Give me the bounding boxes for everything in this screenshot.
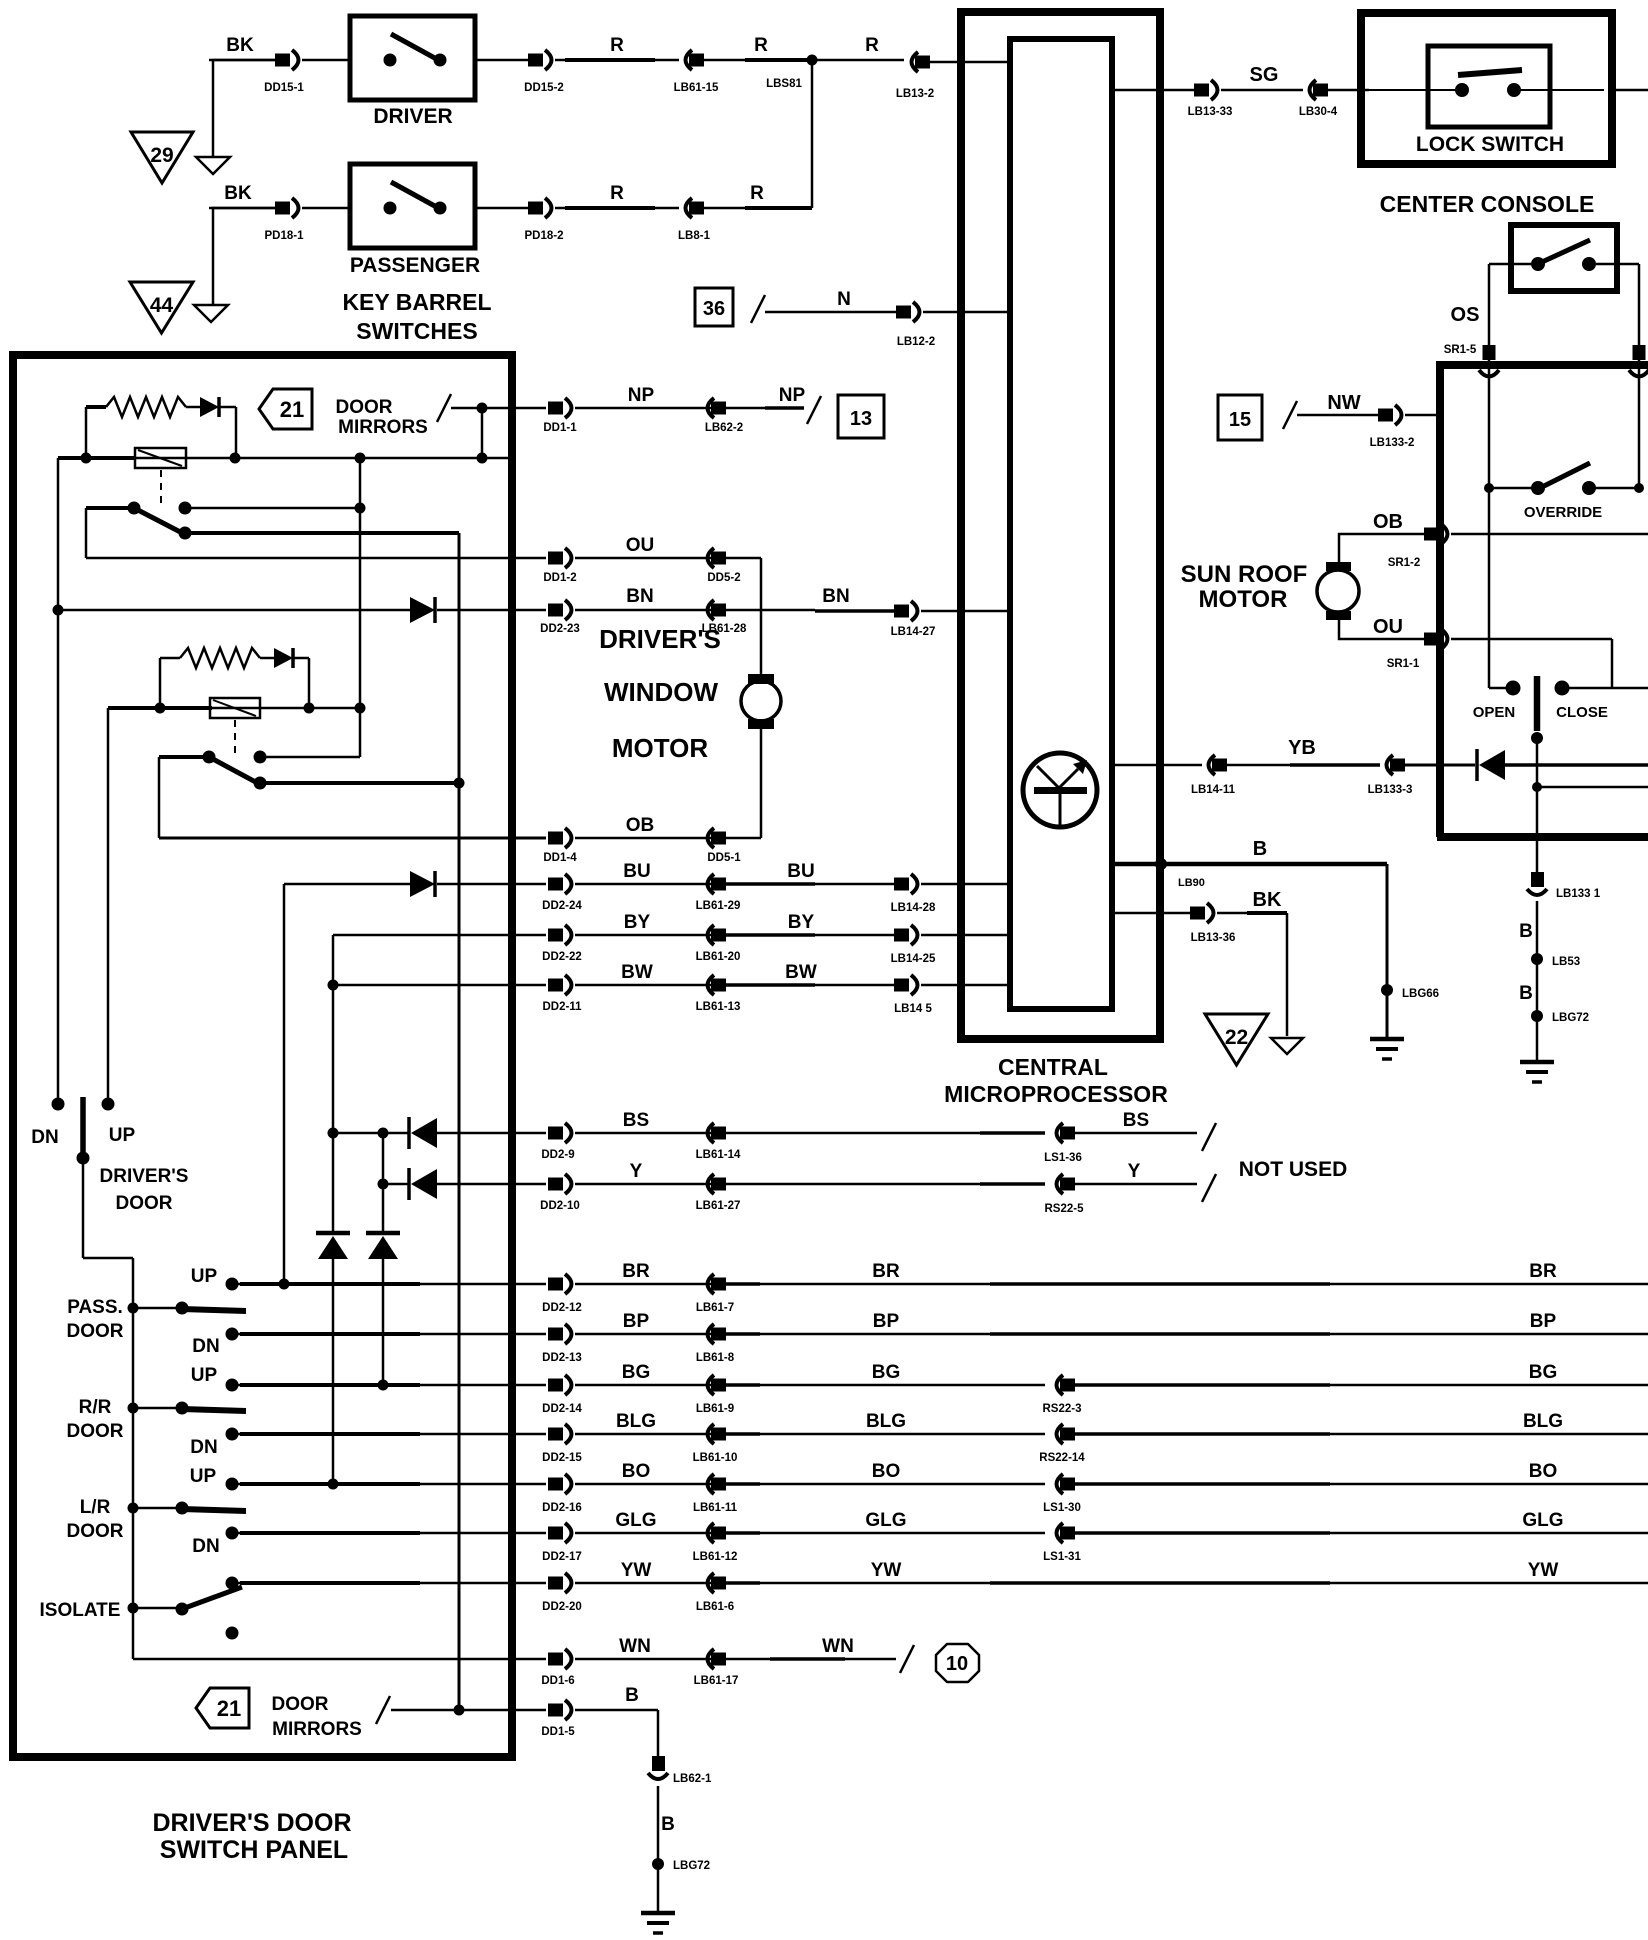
svg-text:LB61-14: LB61-14 [696,1149,741,1161]
svg-text:NP: NP [779,385,806,406]
svg-text:LB61-28: LB61-28 [702,623,747,635]
svg-text:LS1-36: LS1-36 [1044,1152,1082,1164]
svg-text:LB14-11: LB14-11 [1191,784,1236,796]
svg-text:SWITCHES: SWITCHES [356,318,477,344]
svg-text:OB: OB [1373,511,1403,533]
svg-text:PASS.: PASS. [67,1297,123,1318]
svg-text:LBG72: LBG72 [1552,1012,1589,1024]
svg-text:N: N [837,289,851,310]
svg-text:BU: BU [623,861,650,882]
svg-text:LB61-8: LB61-8 [696,1352,735,1364]
svg-text:DD2-15: DD2-15 [542,1452,582,1464]
svg-text:YW: YW [621,1560,652,1581]
svg-text:LB13-33: LB13-33 [1188,106,1233,118]
svg-text:BG: BG [1529,1362,1558,1383]
svg-text:OPEN: OPEN [1473,704,1516,721]
svg-text:DD1-6: DD1-6 [541,1675,574,1687]
svg-text:DD2-17: DD2-17 [542,1551,582,1563]
svg-text:LB61-17: LB61-17 [694,1675,739,1687]
svg-text:LB61-7: LB61-7 [696,1302,734,1314]
svg-text:DD2-13: DD2-13 [542,1352,582,1364]
svg-text:B: B [661,1814,675,1835]
svg-text:BK: BK [224,183,252,204]
svg-text:DN: DN [192,1336,219,1357]
svg-text:BS: BS [1123,1110,1149,1131]
svg-text:MIRRORS: MIRRORS [272,1719,362,1740]
svg-text:LB61-9: LB61-9 [696,1403,734,1415]
svg-text:LB53: LB53 [1552,956,1580,968]
svg-text:DD2-22: DD2-22 [542,951,582,963]
svg-text:RS22-3: RS22-3 [1043,1403,1082,1415]
svg-text:LB90: LB90 [1178,877,1205,889]
svg-text:WINDOW: WINDOW [604,677,719,707]
svg-text:LB13-2: LB13-2 [896,88,934,100]
svg-text:DD15-2: DD15-2 [524,82,564,94]
svg-text:WN: WN [619,1636,651,1657]
svg-text:LB61-10: LB61-10 [693,1452,738,1464]
svg-text:22: 22 [1225,1026,1248,1049]
svg-text:DRIVER'S DOOR: DRIVER'S DOOR [152,1809,351,1837]
svg-text:LS1-31: LS1-31 [1043,1551,1081,1563]
svg-text:LB12-2: LB12-2 [897,336,935,348]
svg-text:44: 44 [150,294,174,317]
svg-text:MOTOR: MOTOR [612,733,709,763]
svg-text:21: 21 [280,397,304,422]
svg-text:MIRRORS: MIRRORS [338,417,428,438]
svg-text:LBG72: LBG72 [673,1860,710,1872]
svg-text:21: 21 [217,1696,241,1721]
svg-text:NP: NP [628,385,655,406]
svg-text:DD1-4: DD1-4 [543,852,577,864]
svg-text:LB13-36: LB13-36 [1191,932,1236,944]
svg-text:SG: SG [1250,64,1279,86]
svg-text:BG: BG [622,1362,651,1383]
svg-text:DOOR: DOOR [336,397,393,418]
svg-text:KEY BARREL: KEY BARREL [342,289,491,315]
svg-text:LB62-2: LB62-2 [705,422,743,434]
svg-text:BK: BK [226,35,254,56]
svg-text:OB: OB [626,815,655,836]
svg-text:SUN ROOF: SUN ROOF [1181,561,1308,588]
svg-text:B: B [1519,983,1533,1004]
svg-text:LB133-3: LB133-3 [1368,784,1413,796]
svg-text:DOOR: DOOR [116,1193,173,1214]
svg-text:BLG: BLG [1523,1411,1563,1432]
svg-text:LB61-11: LB61-11 [693,1502,738,1514]
svg-text:DD2-16: DD2-16 [542,1502,582,1514]
svg-text:B: B [625,1685,639,1706]
svg-text:YW: YW [871,1560,902,1581]
svg-text:RS22-5: RS22-5 [1045,1203,1085,1215]
svg-text:Y: Y [630,1161,643,1182]
svg-text:BW: BW [621,962,653,983]
svg-text:SR1-2: SR1-2 [1388,557,1421,569]
svg-text:BO: BO [1529,1461,1558,1482]
svg-text:LBS81: LBS81 [766,78,802,90]
svg-text:DN: DN [192,1536,219,1557]
svg-text:DOOR: DOOR [272,1694,329,1715]
svg-text:LB61-13: LB61-13 [696,1001,741,1013]
svg-text:36: 36 [703,298,725,320]
svg-text:R: R [750,183,764,204]
svg-text:PD18-1: PD18-1 [265,230,305,242]
svg-text:DD1-1: DD1-1 [543,422,577,434]
svg-text:BG: BG [872,1362,901,1383]
svg-text:BR: BR [622,1261,650,1282]
svg-text:DOOR: DOOR [67,1421,124,1442]
svg-text:15: 15 [1229,409,1251,431]
svg-text:LB8-1: LB8-1 [678,230,711,242]
svg-text:LB61-29: LB61-29 [696,900,741,912]
svg-text:DOOR: DOOR [67,1321,124,1342]
svg-text:OS: OS [1451,304,1480,326]
svg-text:DD1-5: DD1-5 [541,1726,575,1738]
svg-text:DD2-9: DD2-9 [541,1149,574,1161]
svg-text:DD2-20: DD2-20 [542,1601,582,1613]
svg-text:PD18-2: PD18-2 [525,230,564,242]
svg-text:LOCK SWITCH: LOCK SWITCH [1416,133,1564,156]
svg-text:B: B [1519,921,1533,942]
svg-text:Y: Y [1128,1161,1141,1182]
svg-text:R: R [610,183,624,204]
svg-text:CENTER CONSOLE: CENTER CONSOLE [1380,191,1595,217]
svg-text:YB: YB [1288,737,1316,759]
svg-text:UP: UP [109,1125,136,1146]
svg-text:BP: BP [873,1311,900,1332]
svg-text:GLG: GLG [615,1510,656,1531]
svg-text:SWITCH PANEL: SWITCH PANEL [160,1836,348,1864]
svg-text:LB14-28: LB14-28 [891,902,936,914]
svg-text:BP: BP [623,1311,650,1332]
svg-text:LB14-25: LB14-25 [891,953,936,965]
svg-text:R: R [865,35,879,56]
svg-text:BLG: BLG [866,1411,906,1432]
svg-text:DD2-14: DD2-14 [542,1403,582,1415]
svg-text:BY: BY [788,912,815,933]
svg-text:DD5-2: DD5-2 [707,572,740,584]
svg-text:BN: BN [822,586,849,607]
svg-text:OU: OU [1373,616,1403,638]
svg-text:SR1-1: SR1-1 [1387,658,1420,670]
svg-text:LB62-1: LB62-1 [673,1773,712,1785]
svg-text:DD1-2: DD1-2 [543,572,576,584]
svg-text:SR1-5: SR1-5 [1444,344,1477,356]
svg-text:BK: BK [1253,889,1282,911]
svg-text:GLG: GLG [1522,1510,1563,1531]
svg-text:LB61-20: LB61-20 [696,951,741,963]
svg-text:DN: DN [190,1437,217,1458]
svg-text:UP: UP [191,1266,218,1287]
svg-text:LS1-30: LS1-30 [1043,1502,1081,1514]
svg-text:10: 10 [946,1653,968,1675]
svg-text:B: B [1253,838,1267,860]
svg-text:OU: OU [626,535,655,556]
svg-text:BO: BO [622,1461,651,1482]
svg-text:LB61-15: LB61-15 [674,82,719,94]
svg-text:DD2-10: DD2-10 [540,1200,580,1212]
svg-text:LB61-27: LB61-27 [696,1200,741,1212]
svg-text:CLOSE: CLOSE [1556,704,1608,721]
svg-text:GLG: GLG [865,1510,906,1531]
svg-text:UP: UP [190,1466,217,1487]
svg-text:RS22-14: RS22-14 [1039,1452,1085,1464]
svg-text:LB14 5: LB14 5 [894,1003,932,1015]
svg-text:BU: BU [787,861,814,882]
svg-text:MICROPROCESSOR: MICROPROCESSOR [944,1081,1168,1107]
svg-text:LB14-27: LB14-27 [891,626,936,638]
svg-text:BR: BR [1529,1261,1557,1282]
svg-text:BY: BY [624,912,651,933]
svg-text:R: R [754,35,768,56]
svg-text:LB133 1: LB133 1 [1556,888,1601,900]
svg-text:LBG66: LBG66 [1402,988,1439,1000]
svg-text:WN: WN [822,1636,854,1657]
svg-text:LB30-4: LB30-4 [1299,106,1338,118]
svg-text:CENTRAL: CENTRAL [998,1054,1108,1080]
svg-text:BO: BO [872,1461,901,1482]
svg-text:DN: DN [31,1127,58,1148]
svg-text:DD2-23: DD2-23 [540,623,580,635]
svg-text:R/R: R/R [79,1397,112,1418]
svg-text:13: 13 [850,408,872,430]
svg-text:LB61-6: LB61-6 [696,1601,734,1613]
svg-text:LB61-12: LB61-12 [693,1551,738,1563]
svg-text:DRIVER'S: DRIVER'S [100,1166,189,1187]
svg-text:UP: UP [191,1365,218,1386]
svg-text:BN: BN [626,586,653,607]
svg-text:L/R: L/R [80,1497,111,1518]
svg-text:29: 29 [150,144,173,167]
svg-text:DD15-1: DD15-1 [264,82,304,94]
svg-text:DOOR: DOOR [67,1521,124,1542]
svg-text:BLG: BLG [616,1411,656,1432]
svg-text:MOTOR: MOTOR [1199,586,1288,613]
svg-text:BR: BR [872,1261,900,1282]
svg-text:DD5-1: DD5-1 [707,852,741,864]
svg-text:BS: BS [623,1110,649,1131]
svg-text:PASSENGER: PASSENGER [350,254,480,277]
svg-text:OVERRIDE: OVERRIDE [1524,504,1602,521]
svg-text:DRIVER: DRIVER [373,105,452,128]
svg-text:DD2-24: DD2-24 [542,900,582,912]
svg-text:LB133-2: LB133-2 [1370,437,1415,449]
svg-text:BP: BP [1530,1311,1557,1332]
svg-text:DD2-11: DD2-11 [543,1001,583,1013]
svg-text:YW: YW [1528,1560,1559,1581]
svg-text:BW: BW [785,962,817,983]
svg-text:R: R [610,35,624,56]
svg-text:DD2-12: DD2-12 [542,1302,582,1314]
svg-text:ISOLATE: ISOLATE [40,1600,121,1621]
svg-text:NW: NW [1327,392,1360,414]
svg-text:NOT USED: NOT USED [1239,1158,1348,1181]
